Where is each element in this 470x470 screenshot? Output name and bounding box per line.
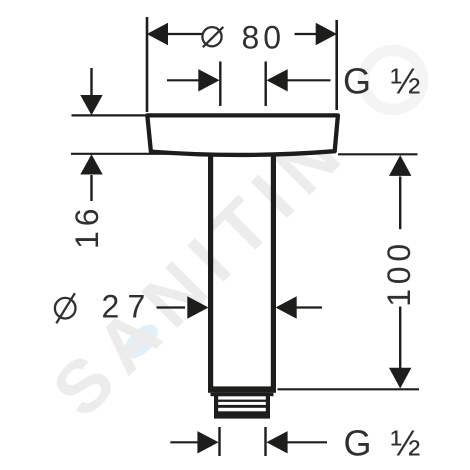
svg-text:G: G xyxy=(343,61,371,102)
svg-text:80: 80 xyxy=(242,20,286,56)
svg-text:16: 16 xyxy=(69,203,105,249)
svg-text:G: G xyxy=(344,423,372,464)
svg-text:½: ½ xyxy=(391,61,421,102)
svg-text:½: ½ xyxy=(391,423,421,464)
svg-text:2: 2 xyxy=(102,288,120,324)
svg-text:7: 7 xyxy=(128,288,146,324)
svg-text:100: 100 xyxy=(381,239,417,307)
